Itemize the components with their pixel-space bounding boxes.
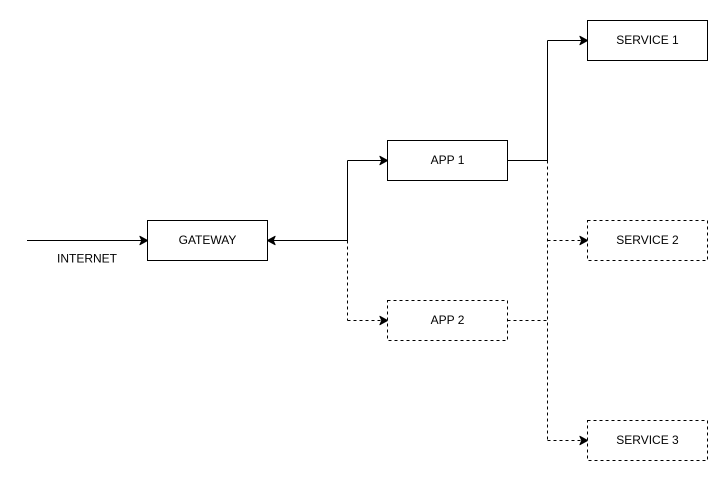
arrowhead into SERVICE1 — [580, 36, 588, 44]
svg-text:APP 2: APP 2 — [431, 313, 465, 327]
node GATEWAY — [148, 221, 268, 261]
svg-text:SERVICE 1: SERVICE 1 — [616, 33, 679, 47]
wire into SERVICE1 — [548, 40, 582, 42]
dashed wire into SERVICE3 — [548, 440, 582, 442]
svg-text:SERVICE 2: SERVICE 2 — [616, 233, 679, 247]
dashed wire junction down from GATEWAY level — [347, 241, 349, 321]
node SERVICE1 — [588, 21, 708, 61]
wire GATEWAY junction horizontal — [273, 240, 347, 242]
wire junction vertical up to SERVICE1 level — [547, 41, 549, 161]
arrowhead into GATEWAY left — [140, 236, 148, 244]
wire APP1 right to junction — [508, 160, 548, 162]
arrowhead into GATEWAY right — [268, 236, 276, 244]
node SERVICE3 dashed — [588, 421, 708, 461]
dashed wire into APP2 — [348, 320, 382, 322]
svg-text:APP 1: APP 1 — [431, 153, 465, 167]
svg-text:INTERNET: INTERNET — [57, 252, 118, 266]
node APP2 dashed — [388, 301, 508, 341]
node SERVICE2 dashed — [588, 221, 708, 261]
arrowhead into APP1 — [380, 156, 388, 164]
arrowhead into APP2 — [380, 316, 388, 324]
dashed vertical trunk — [547, 161, 549, 441]
svg-text:GATEWAY: GATEWAY — [179, 233, 237, 247]
wire junction vertical up to APP1 level — [347, 161, 349, 241]
dashed wire into SERVICE2 — [548, 240, 582, 242]
wire into APP1 — [348, 160, 382, 162]
svg-text:SERVICE 3: SERVICE 3 — [616, 433, 679, 447]
wire INTERNET to GATEWAY — [27, 240, 142, 242]
node APP1 — [388, 141, 508, 181]
arrowhead into SERVICE3 — [580, 436, 588, 444]
arrowhead into SERVICE2 — [580, 236, 588, 244]
dashed wire APP2 right to junction — [508, 320, 548, 322]
